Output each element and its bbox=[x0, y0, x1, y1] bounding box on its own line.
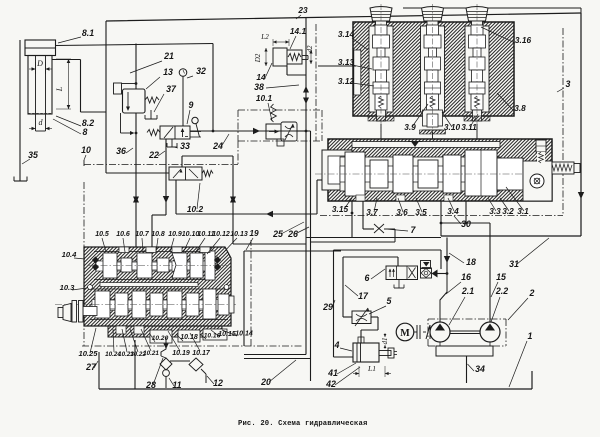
boundary 10 upper dash-dot bbox=[238, 109, 322, 111]
drain 37 symbol bbox=[150, 110, 152, 119]
svg-text:3.13: 3.13 bbox=[338, 57, 355, 67]
valve 6 arrows bbox=[389, 269, 391, 277]
wire right riser bbox=[181, 156, 183, 167]
bottom shaft stems bbox=[110, 300, 115, 309]
control shaft left bbox=[83, 307, 97, 316]
svg-text:42: 42 bbox=[325, 379, 336, 389]
wire right riser to pair bbox=[233, 243, 306, 245]
check valve above 6 bbox=[421, 261, 431, 269]
svg-text:4: 4 bbox=[334, 340, 340, 350]
svg-text:d2: d2 bbox=[306, 45, 314, 53]
spool block 3 housing bbox=[328, 139, 552, 201]
wire to valve 10.2 bbox=[106, 172, 169, 174]
svg-text:29: 29 bbox=[322, 302, 333, 312]
distributor bottom bore bbox=[90, 288, 228, 290]
spool bore bbox=[340, 157, 500, 191]
spool right end inset bbox=[523, 161, 552, 201]
throttle 5 bbox=[352, 311, 371, 324]
shaft end piece right bbox=[229, 296, 234, 313]
svg-text:15: 15 bbox=[496, 272, 506, 282]
svg-text:10.6: 10.6 bbox=[116, 231, 130, 238]
cylinder 8 piston rod bbox=[35, 56, 37, 115]
valve 13 pilot box bbox=[114, 83, 122, 94]
wire loop to valve 6 outer bbox=[334, 249, 442, 251]
svg-text:2.1: 2.1 bbox=[461, 286, 474, 296]
svg-text:37: 37 bbox=[166, 84, 177, 94]
svg-text:22: 22 bbox=[148, 150, 159, 160]
accumulator 14 body bbox=[273, 48, 287, 66]
valve 10.2 arrows bbox=[173, 169, 181, 178]
throttle after 10.1 bbox=[281, 122, 297, 141]
check ball marks right bbox=[215, 257, 221, 263]
svg-text:d1: d1 bbox=[381, 338, 389, 345]
svg-text:L2: L2 bbox=[260, 33, 269, 41]
wire 24 horizontal bbox=[190, 130, 311, 132]
top shaft stems bbox=[117, 262, 121, 270]
svg-text:8: 8 bbox=[83, 127, 88, 137]
spool land 3 bbox=[393, 155, 413, 193]
svg-text:8.1: 8.1 bbox=[82, 28, 94, 38]
valve 9 tank 33 bbox=[171, 139, 173, 147]
wire 10.1 to pair bbox=[297, 130, 306, 132]
boundary 3 dash-dot bbox=[315, 24, 317, 141]
svg-text:21: 21 bbox=[163, 51, 174, 61]
wire spool drop A bbox=[351, 201, 353, 238]
svg-text:3.11: 3.11 bbox=[461, 122, 477, 132]
svg-text:10.18: 10.18 bbox=[180, 334, 198, 341]
plunger 3.12-3.14 (left) bbox=[369, 26, 393, 112]
wire 31 horizontal bbox=[441, 235, 581, 237]
wire 31 vertical right bbox=[580, 13, 582, 236]
cylinder 4 body bbox=[353, 343, 379, 362]
wire valve 13 top bbox=[135, 44, 137, 90]
svg-text:10.9: 10.9 bbox=[168, 231, 182, 238]
wire from cylinder cap to line 21 bbox=[56, 44, 214, 46]
svg-text:D2: D2 bbox=[254, 53, 262, 63]
wire reservoir top bbox=[244, 250, 341, 252]
svg-text:10.8: 10.8 bbox=[151, 231, 165, 238]
wire line 21 vertical bbox=[212, 44, 214, 132]
spool land 1 bbox=[345, 152, 365, 196]
svg-text:Рис. 20. Схема гидравлическая: Рис. 20. Схема гидравлическая bbox=[238, 420, 367, 428]
svg-text:3.8: 3.8 bbox=[514, 103, 526, 113]
svg-text:10.12: 10.12 bbox=[212, 231, 230, 238]
cylinder 8 barrel bbox=[28, 56, 52, 115]
check valve 12 bbox=[189, 358, 203, 371]
valve 13 relief valve body bbox=[123, 89, 146, 113]
pump 2.2 bbox=[480, 322, 500, 342]
svg-text:12: 12 bbox=[213, 378, 223, 388]
wire spool drop B with shutoff 7 bbox=[362, 201, 364, 229]
wire jog into distributor bbox=[152, 214, 166, 216]
svg-text:10.25: 10.25 bbox=[78, 349, 98, 358]
wire tank return 20 bbox=[243, 251, 245, 346]
svg-text:10.17: 10.17 bbox=[192, 350, 211, 357]
svg-text:10.4: 10.4 bbox=[62, 250, 78, 259]
svg-text:D: D bbox=[36, 59, 43, 68]
block 3 left port notch bbox=[354, 50, 361, 95]
svg-text:38: 38 bbox=[254, 82, 264, 92]
svg-text:32: 32 bbox=[196, 66, 206, 76]
wire pair bottom horizontals bbox=[306, 237, 441, 239]
gauge 32 bbox=[179, 69, 187, 77]
wire plunger left port bbox=[318, 65, 356, 67]
top shaft lands bbox=[103, 253, 117, 278]
spool land 7 bbox=[497, 158, 523, 190]
wire loop 17 inner bbox=[343, 256, 398, 258]
svg-text:3.5: 3.5 bbox=[415, 207, 427, 217]
spool land 4 bbox=[418, 160, 438, 188]
wire main bottom line bbox=[99, 388, 532, 390]
svg-text:33: 33 bbox=[180, 141, 190, 151]
svg-text:3.15: 3.15 bbox=[332, 204, 349, 214]
distributor top bore bbox=[94, 251, 212, 253]
plunger 3.9 (middle) bbox=[421, 26, 445, 112]
svg-text:5: 5 bbox=[387, 296, 392, 306]
shutoff symbol 7 bbox=[374, 224, 384, 233]
svg-text:1: 1 bbox=[528, 331, 533, 341]
valve 6 drain tank bbox=[398, 280, 400, 289]
wire 15 vertical to pump 2.2 bbox=[489, 223, 491, 322]
spool top right bolt bbox=[536, 140, 546, 152]
svg-text:10.21: 10.21 bbox=[143, 350, 159, 357]
svg-text:2: 2 bbox=[529, 288, 535, 298]
wire 10.2 drain down bbox=[175, 180, 177, 214]
svg-text:3.1: 3.1 bbox=[517, 206, 529, 216]
wire accumulator drain bbox=[286, 66, 288, 75]
svg-text:26: 26 bbox=[287, 229, 298, 239]
pump shaft bbox=[450, 330, 480, 332]
pump suction box bbox=[436, 346, 493, 356]
check ball marks left bbox=[93, 257, 99, 263]
svg-text:19: 19 bbox=[249, 228, 259, 238]
spool land 2 bbox=[370, 160, 388, 188]
wire drain 34 bbox=[466, 356, 468, 383]
cylinder 4 port stub bbox=[358, 337, 364, 343]
svg-text:3.14: 3.14 bbox=[338, 29, 355, 39]
distributor lower extension bbox=[108, 326, 222, 337]
spool centerline bbox=[315, 173, 570, 175]
wire 36 down from valve 13 bbox=[135, 113, 137, 247]
wire 22 down from valve 9 bbox=[165, 139, 167, 215]
wire block C drain bbox=[134, 340, 136, 389]
svg-text:6: 6 bbox=[365, 273, 370, 283]
svg-text:13: 13 bbox=[163, 67, 173, 77]
svg-text:3.6: 3.6 bbox=[396, 207, 408, 217]
svg-text:10.13: 10.13 bbox=[230, 231, 248, 238]
svg-text:36: 36 bbox=[116, 146, 126, 156]
svg-text:L: L bbox=[55, 86, 64, 92]
cylinder 4 rod bbox=[379, 351, 391, 356]
svg-text:23: 23 bbox=[297, 5, 308, 15]
plunger 3.16 (right) bbox=[465, 26, 489, 112]
svg-text:9: 9 bbox=[189, 100, 194, 110]
valve 13 pilot line bbox=[122, 83, 137, 85]
svg-text:10: 10 bbox=[81, 145, 91, 155]
wire 27 drain bbox=[98, 352, 100, 389]
check arrow into filter bbox=[432, 270, 438, 278]
pump 2.1 bbox=[430, 322, 450, 342]
wire left main vertical bbox=[105, 21, 107, 173]
svg-text:41: 41 bbox=[327, 368, 338, 378]
valve 10.2 spring bbox=[202, 171, 213, 177]
cylinder 8 cap 8.1 bbox=[25, 40, 56, 56]
svg-text:3: 3 bbox=[566, 79, 571, 89]
valve 10.2 body bbox=[169, 167, 202, 180]
svg-text:3.4: 3.4 bbox=[447, 206, 459, 216]
svg-text:17: 17 bbox=[358, 291, 369, 301]
valve 13 internal arrow bbox=[127, 92, 129, 109]
valve 13 pilot loop bottom bbox=[120, 113, 122, 133]
wire pilot riser to spool bbox=[316, 180, 318, 214]
svg-text:3.12: 3.12 bbox=[338, 76, 355, 86]
spool land 6 (right wide) bbox=[465, 150, 497, 196]
valve 9 spring left bbox=[147, 130, 160, 136]
valve 9 lever bbox=[190, 131, 201, 133]
wire plungers to spool block bbox=[380, 124, 382, 139]
wire main pressure line 23 (top) bbox=[106, 13, 581, 21]
spool land 5 bbox=[443, 155, 461, 193]
svg-text:M: M bbox=[400, 328, 410, 339]
spool adjusting screw bbox=[552, 162, 574, 174]
svg-text:35: 35 bbox=[28, 150, 38, 160]
wire 16 to pump 2.1 bbox=[440, 274, 447, 323]
svg-text:10.7: 10.7 bbox=[135, 231, 150, 238]
spool channel notch bbox=[411, 142, 419, 148]
svg-text:34: 34 bbox=[475, 364, 485, 374]
valve 9 arrows bbox=[164, 127, 173, 138]
spool top channel bbox=[352, 142, 500, 148]
valve 13 spring bbox=[145, 97, 159, 103]
accumulator 14.1 spring housing bbox=[287, 50, 302, 64]
spool left collar bbox=[322, 150, 352, 190]
motor M bbox=[396, 323, 414, 341]
bottom bore centerline bbox=[55, 304, 236, 306]
svg-text:3.2: 3.2 bbox=[502, 206, 514, 216]
valve 6 body bbox=[386, 266, 418, 280]
web channel bbox=[100, 283, 198, 287]
extension port slots bbox=[116, 326, 126, 334]
svg-text:3.16: 3.16 bbox=[515, 35, 532, 45]
wire cylinder rod side bbox=[52, 59, 81, 61]
wire spool drop D bbox=[465, 201, 467, 223]
valve 9 body bbox=[160, 126, 190, 139]
wire 18 down with arrow bbox=[446, 238, 448, 274]
top bore centerline bbox=[88, 265, 228, 267]
wire to check valve 12 bbox=[170, 360, 190, 362]
svg-text:3.10: 3.10 bbox=[444, 122, 461, 132]
spool bottom port slots bbox=[356, 195, 365, 201]
svg-text:14: 14 bbox=[256, 72, 266, 82]
boundary 10 dash-dot bbox=[83, 182, 85, 346]
svg-text:10.19: 10.19 bbox=[172, 350, 190, 357]
svg-text:7: 7 bbox=[411, 225, 417, 235]
distributor 10 housing bbox=[84, 247, 231, 326]
wire crossover 15 horizontal bbox=[441, 222, 490, 224]
svg-text:L1: L1 bbox=[367, 364, 376, 373]
svg-text:27: 27 bbox=[85, 362, 97, 372]
bottom shaft lands bbox=[95, 291, 110, 318]
block 3 plunger housing bbox=[353, 22, 514, 116]
top port slots bbox=[119, 247, 129, 253]
svg-text:d: d bbox=[39, 118, 44, 127]
wire horizontal to spool pilot bbox=[176, 213, 317, 215]
svg-text:10.3: 10.3 bbox=[60, 283, 76, 292]
wire to cylinder 4 left bbox=[334, 356, 354, 358]
wire to check valve 11 bbox=[161, 337, 166, 356]
svg-text:14.1: 14.1 bbox=[290, 26, 307, 36]
svg-text:2.2: 2.2 bbox=[495, 286, 508, 296]
check valve 11 bbox=[160, 358, 172, 370]
wire spool drop C bbox=[440, 201, 442, 236]
filter 6 bbox=[421, 268, 432, 278]
wire upper manifold line bbox=[403, 7, 581, 9]
svg-text:3.7: 3.7 bbox=[366, 207, 378, 217]
svg-text:10.1: 10.1 bbox=[256, 93, 273, 103]
wire 25 vertical bbox=[305, 18, 307, 355]
pump boundary dash-dot bbox=[428, 318, 506, 320]
svg-text:3.3: 3.3 bbox=[489, 206, 501, 216]
wire 26 vertical bbox=[310, 131, 312, 359]
svg-text:10.2: 10.2 bbox=[187, 204, 204, 214]
svg-text:18: 18 bbox=[466, 257, 476, 267]
wire throttle connections bbox=[343, 316, 352, 318]
svg-text:16: 16 bbox=[461, 272, 471, 282]
coupling bbox=[414, 331, 417, 333]
svg-text:10.5: 10.5 bbox=[95, 231, 109, 238]
valve 10.1 body bbox=[266, 124, 281, 139]
spool right end cap circle bbox=[530, 174, 544, 188]
pipe end 35 (tank line left) bbox=[19, 40, 21, 181]
